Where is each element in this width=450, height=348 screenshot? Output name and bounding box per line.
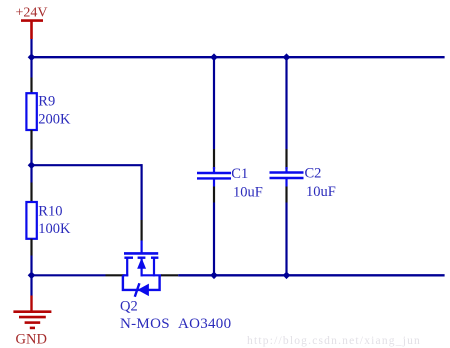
wire top rail — [32, 56, 445, 58]
transistor Q2 gate pin — [141, 220, 143, 241]
transistor Q2 — [123, 241, 162, 297]
resistor R10 pin 2 — [30, 239, 32, 256]
junction top rail / C1 — [210, 53, 218, 61]
ground — [13, 296, 51, 328]
wire bottom rail left — [32, 274, 106, 276]
svg-text:100K: 100K — [38, 221, 71, 237]
svg-text:+24V: +24V — [16, 6, 48, 21]
capacitor C2 pin 1 — [285, 149, 287, 169]
power +24V symbol — [21, 21, 43, 39]
wire C2 top — [285, 57, 287, 149]
resistor R10 — [26, 202, 36, 239]
svg-text:N-MOS AO3400: N-MOS AO3400 — [120, 316, 231, 332]
junction top rail / C2 — [283, 53, 291, 61]
resistor R9 — [26, 93, 36, 130]
junction bottom rail / C1 — [210, 272, 218, 280]
resistor R9 pin 2 — [30, 130, 32, 150]
wire C1 top — [213, 57, 215, 149]
wire R9 to R10 — [30, 150, 32, 183]
svg-text:R10: R10 — [38, 203, 62, 219]
junction bottom rail / C2 — [283, 272, 291, 280]
svg-text:C1: C1 — [231, 166, 248, 182]
svg-text:GND: GND — [16, 331, 47, 347]
capacitor C2 — [270, 167, 304, 187]
capacitor C1 pin 1 — [213, 149, 215, 169]
transistor Q2 source pin — [106, 274, 125, 276]
svg-text:10uF: 10uF — [233, 184, 263, 200]
wire R10 to ground node — [30, 256, 32, 296]
wire gate vertical — [141, 164, 143, 220]
capacitor C1 pin 2 — [213, 187, 215, 203]
svg-text:Q2: Q2 — [120, 299, 138, 315]
wire +24V stub — [30, 39, 32, 78]
wire C2 bottom — [285, 203, 287, 276]
junction node divider — [28, 161, 36, 169]
svg-text:http://blog.csdn.net/xiang_jun: http://blog.csdn.net/xiang_jun — [247, 335, 421, 347]
resistor R10 pin 1 — [30, 183, 32, 203]
junction top rail at +24V — [28, 53, 36, 61]
svg-text:200K: 200K — [38, 111, 71, 127]
wire bottom rail right — [178, 274, 444, 276]
capacitor C1 — [197, 167, 231, 187]
svg-text:C2: C2 — [305, 166, 322, 182]
svg-text:10uF: 10uF — [306, 184, 336, 200]
junction ground node — [28, 272, 36, 280]
transistor Q2 drain pin — [161, 274, 178, 276]
wire gate horizontal — [32, 164, 142, 166]
resistor R9 pin 1 — [30, 78, 32, 94]
capacitor C2 pin 2 — [285, 187, 287, 203]
svg-text:R9: R9 — [38, 94, 55, 110]
wire C1 bottom — [213, 203, 215, 276]
